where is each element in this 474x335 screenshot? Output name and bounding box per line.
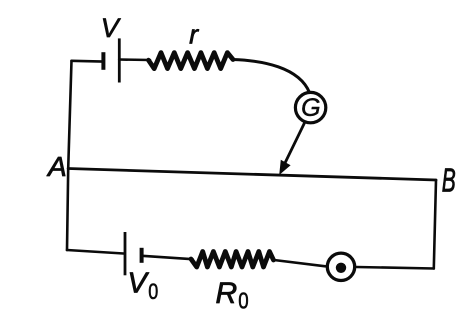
- svg-text:G: G: [301, 94, 320, 122]
- battery V positive plate (long thin): [118, 38, 121, 82]
- battery V0 positive plate (long thin): [124, 232, 127, 275]
- wire: right vertical (B down to bottom-right corner): [434, 180, 436, 269]
- wire: top-left horizontal (battery V to left corner): [72, 59, 104, 62]
- wire: battery V to resistor r: [119, 58, 150, 61]
- svg-text:B: B: [442, 162, 456, 199]
- wire: battery V0 to resistor R0: [142, 256, 193, 259]
- resistor R0: [191, 252, 274, 268]
- resistor r: [149, 53, 234, 69]
- svg-text:V: V: [101, 13, 122, 43]
- battery V negative plate (short thick): [101, 52, 105, 70]
- wire: curved lead from r to galvanometer: [233, 60, 310, 93]
- svg-text:R: R: [216, 277, 238, 310]
- key (plug key, circle with dot): [327, 253, 354, 280]
- svg-text:V: V: [128, 268, 150, 300]
- battery V0 negative plate (short thick): [140, 248, 144, 263]
- svg-text:A: A: [46, 151, 67, 182]
- wire: left vertical (node A down to bottom-left corner): [67, 169, 68, 251]
- wire AB (potentiometer wire): [68, 169, 436, 181]
- wire: bottom-left (corner to battery V0): [67, 250, 124, 254]
- jockey arrow (sliding contact): [285, 122, 305, 164]
- wire: key to resistor R0: [274, 260, 325, 266]
- svg-text:0: 0: [148, 279, 158, 304]
- wire: bottom right (corner to key): [357, 267, 434, 269]
- svg-text:0: 0: [238, 287, 248, 313]
- wire: left vertical (top corner down to node A): [68, 61, 71, 169]
- svg-text:r: r: [189, 19, 199, 49]
- galvanometer G: [295, 92, 325, 122]
